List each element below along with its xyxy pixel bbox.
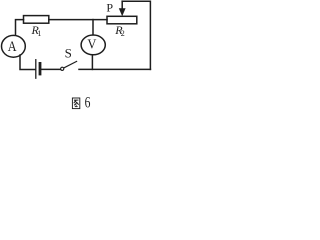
svg-text:1: 1 bbox=[37, 29, 41, 38]
svg-text:2: 2 bbox=[121, 29, 125, 38]
svg-text:S: S bbox=[65, 45, 72, 60]
svg-text:P: P bbox=[106, 1, 113, 15]
svg-text:6: 6 bbox=[85, 95, 91, 112]
svg-text:A: A bbox=[8, 39, 17, 55]
svg-text:V: V bbox=[87, 37, 96, 52]
